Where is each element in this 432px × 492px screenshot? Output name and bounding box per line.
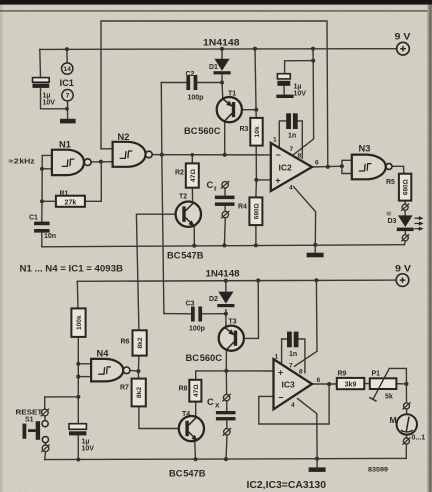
svg-text:−: −: [276, 150, 281, 160]
wire: IC1 pin7 to ground: [67, 101, 69, 119]
svg-text:6: 6: [317, 377, 321, 384]
svg-text:8: 8: [298, 153, 302, 160]
svg-text:T4: T4: [182, 411, 190, 418]
svg-text:6: 6: [315, 160, 319, 167]
ground (lower, near 83599): [309, 467, 326, 472]
wire: long bottom wire: [45, 458, 407, 459]
svg-text:1µ: 1µ: [82, 439, 90, 446]
capacitor C1 10n: [34, 222, 50, 233]
svg-text:C: C: [207, 180, 214, 190]
resistor R1 27k: [56, 196, 85, 207]
wire: IC3 feedback loop: [259, 384, 329, 424]
wire: IC3 output to R9: [312, 383, 337, 385]
LED D3 light arrows: [415, 216, 424, 231]
svg-text:0...1: 0...1: [412, 435, 426, 442]
wire: rail corner down to 100k resistor: [76, 281, 79, 308]
9V terminal (lower): [396, 274, 409, 287]
svg-text:P1: P1: [372, 371, 381, 378]
connector (above D3): [401, 204, 409, 211]
svg-text:D2: D2: [209, 296, 218, 303]
resistor R2 47R: [186, 163, 199, 187]
wire: T4 collector lead from R8: [195, 402, 197, 417]
svg-text:+: +: [278, 367, 283, 377]
connector (above meter): [403, 402, 411, 409]
potentiometer P1 5k: [369, 368, 396, 401]
9V terminal (top): [397, 42, 410, 55]
wire: C1 bottom lead to long ground wire: [41, 233, 43, 247]
wire: N2 output junction column (C2 / N2out / C3): [152, 154, 162, 156]
svg-text:N1 ... N4 = IC1 = 4093B: N1 ... N4 = IC1 = 4093B: [20, 264, 124, 274]
svg-text:47Ω: 47Ω: [190, 169, 197, 183]
svg-text:D3: D3: [388, 218, 397, 225]
transistor T3 BC560C: [219, 326, 244, 351]
wire: stub into N2 upper input: [101, 148, 113, 150]
wire: R2 bottom lead into T2: [191, 188, 193, 203]
svg-text:T3: T3: [229, 319, 237, 326]
wire: T2 base wire going down to R6/R7 column: [136, 214, 175, 330]
op-amp IC3: [274, 359, 313, 409]
wire: T4 emitter lead: [194, 441, 197, 459]
svg-text:IC2,IC3=CA3130: IC2,IC3=CA3130: [247, 480, 327, 491]
wire: lower 1u cap bottom lead: [77, 435, 79, 459]
wire: Cf top lead: [224, 188, 226, 195]
wire: Cf mid lead: [224, 206, 226, 211]
wire: R6 bottom to N4 output node: [137, 356, 140, 372]
wire: R3 top lead from rail: [255, 49, 256, 118]
svg-text:S1: S1: [25, 417, 34, 424]
svg-text:3k9: 3k9: [345, 382, 357, 389]
wire: N4 output to node: [130, 369, 139, 372]
wire: node to R8 top: [196, 371, 227, 380]
svg-text:IC2: IC2: [279, 163, 293, 173]
resistor R7 8k2: [132, 379, 146, 407]
wire: D2 anode lead from rail: [225, 281, 227, 292]
resistor R5 680R: [399, 174, 411, 201]
wire: 100k bottom / N4 inputs / reset / cap column: [77, 337, 79, 424]
wire: R1 right lead up to N1 output node: [85, 162, 101, 202]
ground (below IC2 / R4 area): [307, 253, 324, 258]
transistor T4 BC547B: [179, 416, 204, 441]
svg-text:R9: R9: [338, 371, 347, 378]
top rule line: [0, 10, 430, 11]
left page-edge shading: [0, 0, 3, 492]
wire: T3 collector lead down: [225, 351, 227, 371]
svg-text:680Ω: 680Ω: [402, 179, 409, 195]
NAND gate N2: [113, 142, 153, 167]
wire: P1 right lead to meter column: [396, 383, 406, 385]
IC1 pin circle 7: [62, 90, 73, 101]
wire: N3 output to R5: [392, 166, 404, 173]
wire: lower +9V rail: [77, 280, 396, 281]
NAND gate N3: [352, 155, 392, 180]
push-button S1 top connector: [41, 409, 49, 417]
svg-text:N2: N2: [118, 132, 130, 142]
wire: Cx bottom to long bottom wire: [226, 435, 227, 459]
svg-text:8: 8: [299, 369, 303, 376]
right page border: [427, 5, 432, 492]
svg-text:7: 7: [289, 363, 293, 370]
wire: IC1 decoupling cap top lead: [39, 49, 42, 77]
wire: meter bottom lead: [406, 435, 408, 438]
transistor T1 BC560C: [217, 97, 242, 122]
wire: 1n (IC3) left lead: [282, 339, 287, 362]
svg-text:C3: C3: [186, 301, 195, 308]
svg-text:1N4148: 1N4148: [203, 38, 240, 48]
svg-text:R3: R3: [240, 126, 249, 133]
NAND gate N1: [52, 150, 91, 175]
wire: meter column upper: [405, 384, 407, 403]
LED D3: [387, 212, 414, 231]
wire: R2 top lead: [191, 155, 193, 164]
svg-text:R7: R7: [120, 385, 129, 392]
wire: node to IC3 + input: [226, 370, 273, 372]
wire: T1 base to R3 column: [242, 109, 256, 111]
resistor R3 10k: [250, 118, 262, 146]
wire: R7 bottom to T4 base: [139, 406, 179, 428]
svg-text:BC 560C: BC 560C: [184, 126, 221, 136]
svg-text:IC1: IC1: [60, 78, 74, 88]
svg-text:47Ω: 47Ω: [193, 384, 200, 397]
trimmer cap Cf top connector: [221, 181, 229, 189]
wire: IC2 supply cap lead to ground bar: [283, 86, 285, 95]
push-button S1 bottom connector: [41, 445, 49, 453]
wire: P1 wiper top link: [389, 368, 406, 384]
svg-text:9 V: 9 V: [395, 264, 412, 274]
capacitor 1u/10V (IC2 supply), electrolytic: [277, 74, 290, 86]
wire: N1 input bracket: [42, 155, 52, 168]
svg-text:BC 560C: BC 560C: [186, 353, 223, 363]
svg-text:T2: T2: [179, 194, 187, 201]
wire: R5 to test point: [404, 201, 406, 205]
svg-text:R5: R5: [386, 179, 395, 186]
wire: D1 cathode to T1 emitter: [221, 74, 224, 98]
NAND gate N4: [91, 359, 130, 382]
wire: 9V to IC3 pin7: [295, 280, 318, 366]
resistor 100k (lower section): [71, 308, 85, 337]
svg-text:RESET: RESET: [16, 408, 43, 417]
wire: N4 upper input stub: [78, 363, 91, 365]
wire: R3 bottom lead down to + input node: [255, 146, 257, 180]
svg-text:9 V: 9 V: [395, 32, 412, 42]
svg-text:1: 1: [275, 354, 279, 361]
wire: T3 base to rail column: [244, 281, 259, 339]
wire: D2 cathode to T3 emitter: [225, 310, 227, 326]
svg-text:10V: 10V: [294, 91, 307, 98]
svg-text:7: 7: [66, 93, 70, 100]
svg-text:N1: N1: [59, 140, 71, 150]
wire: C3 right lead: [202, 313, 226, 315]
svg-text:C: C: [207, 397, 214, 407]
svg-text:R6: R6: [121, 339, 130, 346]
svg-text:10n: 10n: [44, 233, 56, 240]
svg-text:1µ: 1µ: [43, 93, 51, 100]
svg-text:4: 4: [289, 185, 293, 192]
svg-text:8k2: 8k2: [137, 337, 144, 349]
svg-text:7: 7: [290, 146, 294, 153]
wire: long lower wire of top section: [42, 245, 405, 247]
wire: Cx plates to lower circle: [226, 420, 228, 428]
top black bar: [0, 0, 432, 5]
wire: R1 left lead: [42, 200, 56, 202]
wire: N4 lower input stub: [78, 376, 91, 378]
wire: Cx upper circle to plates: [226, 401, 228, 411]
ground (IC2 supply cap): [276, 95, 293, 98]
svg-text:IC3: IC3: [282, 380, 296, 390]
svg-text:T1: T1: [228, 91, 236, 98]
meter M: [397, 414, 417, 434]
wire: T2 emitter lead: [193, 227, 195, 246]
svg-text:1N4148: 1N4148: [206, 269, 240, 279]
connector (below meter): [402, 437, 410, 444]
wire: node down to Cx: [225, 371, 227, 395]
wire: test point down to long wire: [403, 241, 406, 245]
svg-text:N3: N3: [359, 144, 371, 154]
capacitor C3 100p: [191, 307, 202, 322]
svg-text:100k: 100k: [76, 315, 83, 330]
IC1 pin circle 14: [61, 63, 72, 74]
svg-text:83599: 83599: [368, 467, 388, 474]
capacitor 1u/10V (lower, reset), electrolytic: [69, 424, 86, 436]
wire: IC2 supply cap top lead to 9V column: [285, 61, 314, 74]
wire: C2 right lead to D1 node: [197, 82, 222, 84]
wire: upper ground symbol lead: [314, 245, 316, 253]
svg-text:1n: 1n: [288, 133, 296, 140]
trimmer cap Cf bottom connector: [221, 211, 229, 219]
capacitor Cx plates: [216, 411, 236, 420]
svg-text:100p: 100p: [189, 326, 205, 333]
wire: IC1 cap bottom lead to ground node: [41, 88, 67, 109]
svg-text:BC 547B: BC 547B: [167, 251, 204, 261]
wire: 1n (IC2) right lead to pin8: [298, 121, 303, 158]
wire: 1n (IC3) right lead to pin8: [298, 339, 305, 373]
connector (below D3): [401, 234, 409, 241]
transistor T2 BC547B: [176, 202, 201, 227]
svg-text:1: 1: [273, 137, 277, 144]
diode D2 1N4148: [217, 292, 234, 308]
wire: +9V top rail: [40, 48, 397, 51]
svg-text:+: +: [275, 176, 280, 186]
wire: R4 top lead: [255, 180, 258, 198]
svg-text:1n: 1n: [289, 351, 297, 358]
wire: IC2 pin4 down to ground node: [294, 187, 316, 245]
wire: N3 input bracket: [342, 160, 352, 173]
wire: reset branch: [45, 397, 79, 409]
wire: C2 left lead: [161, 82, 186, 84]
svg-text:−: −: [278, 393, 283, 403]
wire: IC3 pin4 to ground node: [298, 399, 318, 459]
trimmer cap Cx bottom connector: [223, 428, 231, 436]
wire: + input stub of IC2: [256, 179, 270, 181]
wire: node to R7 top: [137, 371, 139, 379]
svg-text:680Ω: 680Ω: [253, 203, 260, 219]
wire: test point to D3 anode: [404, 210, 406, 215]
wire: Cf bottom lead: [223, 218, 226, 246]
resistor R8 47R: [189, 380, 201, 402]
resistor R9 3k9: [337, 378, 365, 389]
wire: 9V to IC2 pin7 column: [293, 49, 314, 156]
capacitor 1u/10V (IC1 supply), electrolytic: [33, 78, 50, 88]
wire: N1 input down to R1 left node: [41, 169, 43, 202]
wire: S1 bottom to long bottom wire: [44, 452, 47, 460]
wire: R4 bottom lead: [255, 225, 257, 245]
wire: meter to long bottom wire: [405, 444, 407, 458]
wire: S1 contact link lower: [44, 443, 46, 446]
resistor R4 680R: [249, 197, 262, 225]
svg-text:100p: 100p: [188, 95, 204, 102]
wire: S1 contact link upper: [44, 416, 46, 421]
wire: C1 top lead: [41, 201, 43, 221]
wire: D1 top lead: [221, 49, 223, 59]
wire: C3 left lead joins N2 output column: [164, 313, 191, 315]
trimmer cap Cx top connector: [222, 394, 230, 402]
svg-text:10k: 10k: [254, 126, 261, 138]
svg-text:M: M: [390, 415, 397, 425]
resistor R6 8k2: [133, 330, 147, 355]
wire: IC2 output to N3: [312, 165, 342, 168]
capacitor 1n (IC2): [286, 113, 297, 129]
wire: R9 to P1: [364, 383, 370, 385]
svg-text:R8: R8: [179, 386, 188, 393]
svg-text:4: 4: [291, 402, 295, 409]
svg-text:10V: 10V: [43, 100, 56, 107]
svg-text:8k2: 8k2: [136, 387, 143, 399]
svg-text:1µ: 1µ: [294, 84, 302, 91]
svg-text:≈ 2 kHz: ≈ 2 kHz: [9, 157, 35, 166]
diode D1 1N4148: [214, 59, 231, 75]
svg-text:10V: 10V: [82, 446, 95, 453]
wire: meter top lead: [406, 409, 408, 414]
svg-text:14: 14: [63, 66, 71, 73]
wire: inverting-input wire to IC2: [162, 154, 271, 156]
svg-text:C1: C1: [29, 215, 38, 222]
svg-text:D1: D1: [209, 64, 218, 71]
op-amp IC2: [271, 143, 312, 191]
capacitor Cf plates: [215, 196, 235, 206]
svg-text:R1: R1: [60, 191, 69, 198]
svg-text:27k: 27k: [65, 199, 77, 206]
wire: IC1 pin14 to rail: [66, 49, 68, 63]
svg-text:C2: C2: [186, 71, 195, 78]
capacitor 1n (IC3): [287, 332, 299, 348]
push-button S1 contacts and actuator: [23, 421, 49, 443]
svg-text:R4: R4: [238, 204, 247, 211]
svg-text:X: X: [215, 403, 220, 410]
wire: lower ground symbol lead: [316, 459, 318, 468]
wire: D3 cathode to test point: [404, 231, 406, 234]
wire: top loop rail y=21 from N2 input column to IC2 output column: [101, 21, 328, 167]
wire: 1n (IC2) left lead: [279, 121, 286, 148]
wire: T1 collector lead: [224, 121, 226, 154]
svg-text:BC 547B: BC 547B: [169, 469, 206, 479]
capacitor C2 100p: [186, 75, 197, 90]
wire: N1 output to N2 lower input: [91, 161, 112, 163]
svg-text:N4: N4: [97, 349, 110, 359]
svg-text:5k: 5k: [385, 394, 393, 401]
svg-text:R2: R2: [175, 170, 184, 177]
ground (IC1): [60, 119, 76, 124]
